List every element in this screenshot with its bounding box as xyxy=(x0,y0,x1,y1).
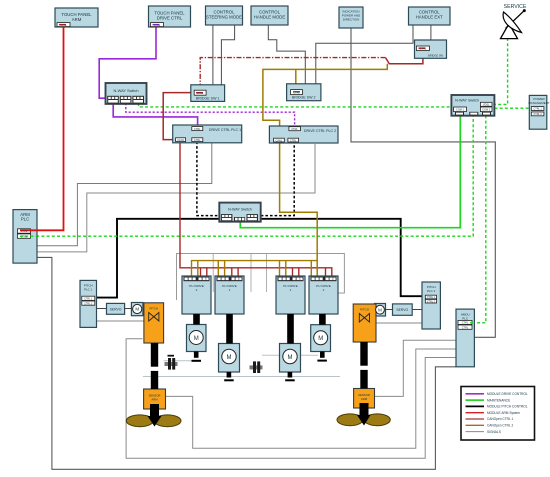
svg-text:BRIDGE SW 2: BRIDGE SW 2 xyxy=(292,96,316,100)
svg-text:M: M xyxy=(227,355,232,361)
svg-text:M: M xyxy=(378,307,382,312)
svg-text:M: M xyxy=(288,355,293,361)
svg-text:N-WAY Switch: N-WAY Switch xyxy=(113,88,138,93)
svg-text:MODULE PITCH CONTROL: MODULE PITCH CONTROL xyxy=(487,405,528,409)
svg-text:DRIVE CTRL PLC 1: DRIVE CTRL PLC 1 xyxy=(209,128,241,132)
svg-text:STEERING MODE: STEERING MODE xyxy=(206,15,242,20)
svg-text:CTRL: CTRL xyxy=(462,322,469,325)
svg-text:CTRL 2: CTRL 2 xyxy=(534,113,543,116)
svg-text:BRIDGE SW 1: BRIDGE SW 1 xyxy=(196,97,220,101)
svg-text:CTRL: CTRL xyxy=(154,24,161,27)
svg-text:SIGNALS: SIGNALS xyxy=(487,430,501,434)
svg-text:COM 1: COM 1 xyxy=(456,109,465,112)
svg-text:CTRL: CTRL xyxy=(197,92,204,95)
svg-text:1: 1 xyxy=(290,288,292,292)
svg-text:PU DRIVE: PU DRIVE xyxy=(222,284,237,288)
svg-text:CTRL: CTRL xyxy=(21,235,28,238)
svg-text:DRIVE CTRL: DRIVE CTRL xyxy=(157,16,183,21)
svg-text:CTRL: CTRL xyxy=(291,128,298,131)
svg-text:PLC 2: PLC 2 xyxy=(427,289,436,293)
svg-text:CTRL: CTRL xyxy=(194,128,201,131)
svg-text:ARM: ARM xyxy=(151,398,158,402)
svg-text:COM 2: COM 2 xyxy=(482,109,491,112)
svg-text:CTRL 1: CTRL 1 xyxy=(427,296,436,299)
svg-text:ARM: ARM xyxy=(361,397,368,401)
svg-text:PU DRIVE: PU DRIVE xyxy=(189,284,204,288)
svg-text:CTRL: CTRL xyxy=(60,24,67,27)
svg-text:MAINTENANCE: MAINTENANCE xyxy=(487,398,510,402)
svg-text:PU DRIVE: PU DRIVE xyxy=(283,284,298,288)
svg-text:PITCH: PITCH xyxy=(149,307,158,311)
svg-text:CTRL: CTRL xyxy=(194,139,201,142)
svg-text:CTRL: CTRL xyxy=(21,230,28,233)
svg-text:BRIDGE SW: BRIDGE SW xyxy=(428,54,443,58)
svg-text:HANDLE EXT: HANDLE EXT xyxy=(416,15,443,20)
svg-text:MODULE DRIVE CONTROL: MODULE DRIVE CONTROL xyxy=(487,392,528,396)
svg-text:SERVO: SERVO xyxy=(396,308,408,312)
svg-text:CTRL 1: CTRL 1 xyxy=(534,108,543,111)
svg-text:PLC: PLC xyxy=(21,217,29,222)
svg-text:CTRL: CTRL xyxy=(420,47,427,50)
svg-text:SERVICE: SERVICE xyxy=(504,4,527,10)
svg-text:N-WAY Switch: N-WAY Switch xyxy=(228,208,252,212)
svg-text:CANOpen CTRL 1: CANOpen CTRL 1 xyxy=(487,417,514,421)
svg-text:MANAGEMENT: MANAGEMENT xyxy=(528,101,550,105)
svg-text:M: M xyxy=(194,336,199,342)
svg-text:2: 2 xyxy=(196,288,198,292)
svg-text:CTRL 1: CTRL 1 xyxy=(84,298,93,301)
svg-text:CTRL: CTRL xyxy=(290,139,297,142)
svg-text:HANDLE MODE: HANDLE MODE xyxy=(254,15,286,20)
svg-text:PLC: PLC xyxy=(462,317,469,321)
svg-text:ARM: ARM xyxy=(72,17,82,22)
svg-text:DIRECTION: DIRECTION xyxy=(343,18,360,22)
svg-text:PU DRIVE: PU DRIVE xyxy=(316,284,331,288)
svg-text:MODULE ARM System: MODULE ARM System xyxy=(487,411,520,415)
svg-text:1: 1 xyxy=(229,288,231,292)
svg-text:SERVO: SERVO xyxy=(110,308,122,312)
svg-text:CTRL 2: CTRL 2 xyxy=(427,300,436,303)
svg-text:CAN1: CAN1 xyxy=(276,139,283,142)
svg-text:2: 2 xyxy=(323,288,325,292)
svg-text:N-WAY Switch: N-WAY Switch xyxy=(455,99,479,103)
svg-text:VDSL: VDSL xyxy=(483,103,490,106)
svg-text:PITCH: PITCH xyxy=(360,308,369,312)
svg-text:CTRL 2: CTRL 2 xyxy=(84,302,93,305)
svg-text:M: M xyxy=(318,336,323,342)
svg-text:CANOpen CTRL 2: CANOpen CTRL 2 xyxy=(487,424,514,428)
svg-text:CTRL: CTRL xyxy=(293,91,300,94)
svg-text:CAN1: CAN1 xyxy=(177,139,184,142)
svg-text:M: M xyxy=(135,307,139,312)
svg-text:PLC 1: PLC 1 xyxy=(84,288,93,292)
svg-text:CTRL: CTRL xyxy=(462,326,469,329)
svg-text:DRIVE CTRL PLC 2: DRIVE CTRL PLC 2 xyxy=(304,129,336,133)
